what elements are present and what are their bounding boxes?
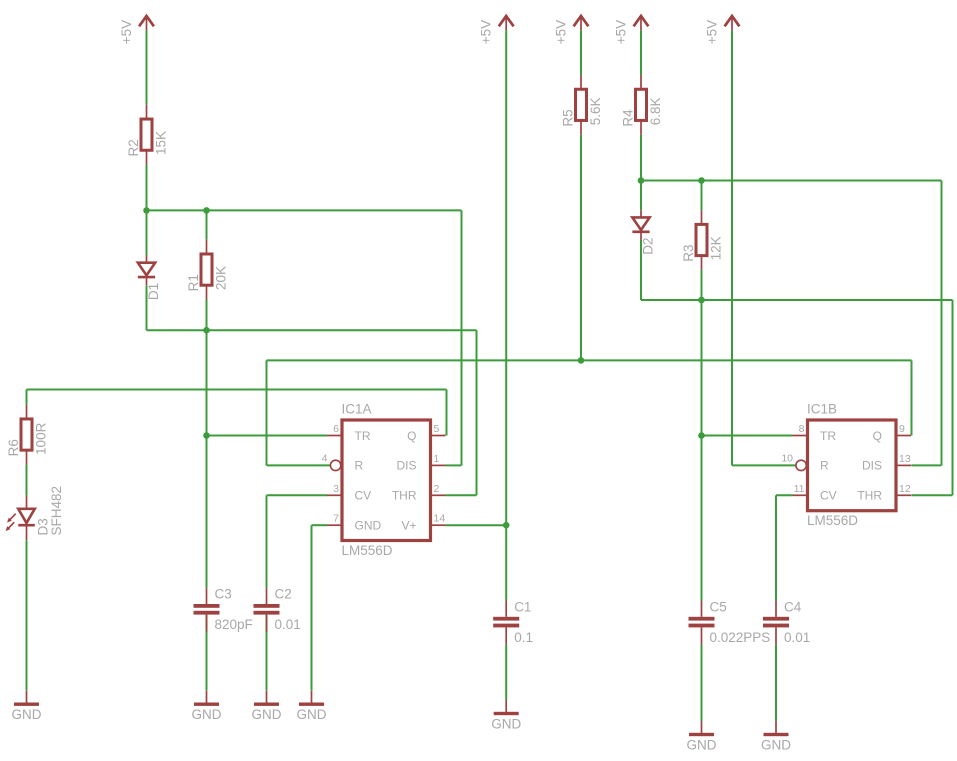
junction V+ net at C1 column [503,522,510,529]
wire down to IC1B DIS [941,181,943,466]
svg-text:THR: THR [857,489,882,503]
wire R1 bottom to N2 [206,299,208,330]
svg-text:+5V: +5V [613,20,628,44]
junction node N4 at R3 bottom [698,297,705,304]
+5V power symbol P1 [119,16,154,44]
wire IC1B pin 11 CV [776,494,793,496]
svg-text:V+: V+ [401,519,416,533]
svg-text:CV: CV [355,489,372,503]
svg-text:15K: 15K [154,131,169,155]
svg-text:8: 8 [799,423,805,435]
svg-text:4: 4 [322,452,328,464]
LED diode D3 SFH482 [6,486,64,540]
junction node N3 at R4/D2 [638,177,645,184]
wire down to IC1A pin 5 Q [446,390,448,436]
svg-text:GND: GND [687,738,717,753]
wire C1 to ground [505,644,507,700]
ground GND symbol G4 [297,691,327,723]
junction node N3 at R3 top [698,177,705,184]
capacitor C5 value 0.022PPS [689,599,771,645]
wire into IC1A pin 2 THR [446,494,477,496]
svg-text:C4: C4 [784,599,802,614]
wire C5 to ground [701,644,703,721]
svg-text:+5V: +5V [479,20,494,44]
svg-text:820pF: 820pF [215,617,253,632]
svg-text:+5V: +5V [553,20,568,44]
capacitor C4 value 0.01 [763,599,810,645]
IC IC1B pin 10 (R) [781,452,829,472]
svg-text:GND: GND [355,519,382,533]
svg-text:1: 1 [434,453,440,465]
svg-text:100R: 100R [34,422,49,455]
wire down to IC1A R pin [266,360,268,465]
IC IC1B pin 9 (Q) [873,423,911,443]
wire R2 to node N1 [146,165,148,211]
wire N1 down to D1 anode [146,210,148,255]
+5V power symbol P3 [553,16,588,44]
svg-text:R1: R1 [186,274,201,291]
wire +5V to R4 [640,30,642,75]
capacitor C1 value 0.1 [493,599,533,645]
svg-text:R6: R6 [6,439,21,456]
ground GND symbol G2 [192,691,222,723]
svg-text:GND: GND [491,717,521,732]
junction node N1 at R2/D1 [143,207,150,214]
IC IC1A pin 4 (R) [322,452,364,472]
svg-text:CV: CV [820,489,837,503]
resistor R1 value 20K [186,240,229,300]
wire +5V column to C1 [505,30,507,600]
svg-text:6.8K: 6.8K [648,97,663,125]
svg-text:TR: TR [355,429,371,443]
wire down to IC1A THR [476,330,478,495]
junction node N4 at IC1B TR tap [698,432,705,439]
wire N1 to R1 top [206,210,208,239]
svg-text:R3: R3 [681,245,696,262]
capacitor C2 value 0.01 [254,587,301,633]
ground GND symbol G6 [687,721,717,753]
op-amp/timer IC IC1A box [342,420,431,541]
svg-text:GND: GND [12,707,42,722]
IC IC1A pin 5 (Q) [407,423,445,443]
IC IC1A pin 14 (V+) [401,513,445,533]
wire into IC1B pin 10 R bubble [732,464,796,466]
svg-text:D1: D1 [146,283,161,300]
wire N3 to D2 anode [640,181,642,211]
svg-text:R4: R4 [621,109,636,127]
IC IC1B pin 11 (CV) [793,483,837,503]
svg-text:2: 2 [434,483,440,495]
IC IC1B name label [807,402,837,417]
wire +5V column to IC1B R [731,30,733,465]
wire N2 down to C3 [206,330,208,588]
wire N2 to IC1A pin 6 TR [207,435,328,437]
svg-text:0.01: 0.01 [784,630,810,645]
IC IC1A pin 1 (DIS) [396,453,445,473]
wire C3 to ground [206,615,208,691]
svg-text:LM556D: LM556D [342,543,393,558]
svg-text:12: 12 [899,483,911,495]
wire R6 to D3 [26,464,28,495]
wire N3 to R3 top [701,181,703,211]
ground GND symbol G5 [491,700,521,732]
svg-text:TR: TR [820,429,836,443]
wire IC1A pin 3 CV [267,494,328,496]
svg-text:D2: D2 [641,238,656,255]
svg-text:10: 10 [781,452,793,464]
svg-text:IC1A: IC1A [342,402,372,417]
wire C4 to ground [775,644,777,721]
resistor R4 value 6.8K [621,75,664,135]
capacitor C3 value 820pF [194,587,253,633]
svg-text:Q: Q [873,429,882,443]
wire IC1A pin 14 V+ [446,524,507,526]
svg-text:C3: C3 [215,587,232,602]
svg-text:C5: C5 [710,599,727,614]
IC IC1B pin 8 (TR) [793,423,837,443]
IC IC1A pin 3 (CV) [327,483,371,503]
junction reset net at R5 [578,357,585,364]
wire into IC1A pin 1 DIS [446,464,462,466]
wire node N4 horizontal run [641,299,953,301]
wire N4 to IC1B pin 8 TR [702,435,793,437]
svg-text:R5: R5 [561,109,576,126]
wire D2 cathode down to node N4 [640,240,642,300]
svg-text:IC1B: IC1B [807,402,837,417]
svg-text:0.01: 0.01 [275,617,301,632]
svg-text:14: 14 [434,513,446,525]
wire node N3 horizontal run [641,180,942,182]
svg-text:SFH482: SFH482 [49,486,64,536]
svg-text:GND: GND [192,707,222,722]
ground GND symbol G1 [12,691,42,723]
IC IC1B pin 12 (THR) [857,483,911,503]
wire pin 7 down to ground [311,525,313,690]
svg-text:6: 6 [333,423,339,435]
svg-text:R: R [355,459,364,473]
svg-text:7: 7 [333,513,339,525]
op-amp/timer IC IC1B box [808,420,897,511]
svg-text:20K: 20K [214,266,229,290]
svg-text:5.6K: 5.6K [588,97,603,125]
svg-text:Q: Q [407,429,416,443]
svg-text:GND: GND [297,707,327,722]
svg-text:THR: THR [392,489,417,503]
wire into IC1A pin 4 R bubble [267,464,331,466]
svg-text:R: R [820,459,829,473]
+5V power symbol P5 [704,16,739,44]
wire R3 bottom to N4 [701,270,703,300]
svg-text:+5V: +5V [704,20,719,44]
svg-text:0.022PPS: 0.022PPS [710,630,771,645]
IC IC1B pin 13 (DIS) [862,453,911,473]
+5V power symbol P4 [613,16,648,44]
junction node N2 at R1 bottom [203,327,210,334]
wire D3 to ground [26,540,28,690]
svg-text:LM556D: LM556D [807,513,858,528]
wire down to R6 [26,390,28,405]
svg-text:11: 11 [794,483,805,495]
svg-text:9: 9 [899,423,905,435]
junction node N1 at R1 top [203,207,210,214]
svg-text:5: 5 [434,423,440,435]
wire R4 to node N3 [640,135,642,181]
wire reset net horizontal run [267,359,912,361]
svg-text:C1: C1 [514,599,531,614]
junction node N2 at TR tap [203,432,210,439]
svg-text:DIS: DIS [396,459,416,473]
IC IC1B value label LM556D [807,513,858,528]
diode D2 [632,210,655,255]
IC IC1A pin 6 (TR) [327,423,371,443]
svg-text:C2: C2 [275,587,292,602]
diode D1 [138,256,161,301]
wire D1 cathode down [146,285,148,330]
wire C2 to ground [266,615,268,691]
svg-text:DIS: DIS [862,459,882,473]
resistor R3 value 12K [681,210,724,270]
wire into IC1B pin 13 DIS [911,464,941,466]
svg-text:13: 13 [899,453,911,465]
wire +5V to R2 [146,30,148,105]
wire IC1A pin 7 GND [312,524,328,526]
wire CV down to C2 [266,495,268,587]
ground GND symbol G7 [761,721,791,753]
wire node N2 horizontal run [147,329,477,331]
ground GND symbol G3 [252,691,282,723]
wire down to IC1B THR [952,300,954,495]
wire CV down to C4 [775,495,777,600]
wire R5 to reset net [580,135,582,361]
wire N4 down to C5 [701,300,703,601]
svg-text:+5V: +5V [119,20,134,44]
svg-text:GND: GND [252,707,282,722]
IC IC1A pin 2 (THR) [392,483,446,503]
+5V power symbol P2 [479,16,514,44]
wire node N1 horizontal run [147,209,462,211]
svg-text:0.1: 0.1 [514,630,533,645]
svg-text:R2: R2 [126,139,141,156]
resistor R2 value 15K [126,105,169,165]
wire into IC1B pin 12 THR [911,494,952,496]
resistor R6 value 100R [6,405,49,465]
IC IC1A value label LM556D [342,543,393,558]
svg-text:3: 3 [333,483,339,495]
IC IC1A pin 7 (GND) [327,513,382,533]
svg-text:GND: GND [761,738,791,753]
wire Q output to LED run [27,389,447,391]
svg-text:12K: 12K [709,236,724,260]
wire +5V to R5 [580,30,582,75]
wire down to IC1A DIS [461,210,463,465]
resistor R5 value 5.6K [561,75,604,135]
wire down to IC1B Q [911,360,913,435]
IC IC1A name label [342,402,372,417]
